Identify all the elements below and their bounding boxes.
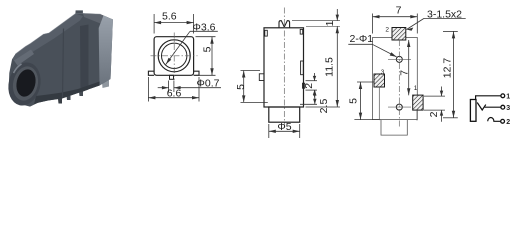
photo: bottom dark band [34,82,100,105]
svg-text:1: 1 [414,85,418,92]
footprint: pad1 pin line down [416,110,418,120]
photo: pin 3 [79,87,84,96]
side view: dim 1 extension lines top right [292,20,340,22]
front view: dim 6.6 extension lines [147,77,149,102]
svg-text:2: 2 [428,111,440,117]
side view: top left notch [265,30,268,36]
side view: dim 1 arrows [336,9,338,21]
svg-text:Φ0.7: Φ0.7 [197,78,220,90]
schematic: wire to terminal 3 [485,106,501,108]
photo: barrel opening [14,67,38,98]
front view: dim phi0.7 extension lines [168,81,170,93]
svg-text:2: 2 [303,83,315,89]
footprint: body outline [373,38,418,120]
front view: dim 5 right extension lines [196,36,216,38]
footprint: dim 12.7 extension lines [443,30,458,32]
footprint: label 2-phi1 leader [372,44,396,57]
footprint: hole 1 circle [396,56,402,62]
svg-text:3-1.5x2: 3-1.5x2 [427,8,462,20]
svg-text:5.6: 5.6 [162,10,177,22]
svg-text:3: 3 [506,105,510,112]
svg-text:2.5: 2.5 [318,99,330,114]
svg-text:3: 3 [381,69,385,76]
svg-text:2: 2 [506,119,510,126]
front view: dim phi3.6 underline [190,30,218,32]
schematic: terminal 3 circle [501,105,505,109]
svg-text:6.6: 6.6 [167,87,182,99]
footprint: vertical centerline [398,40,400,128]
front view: outer circle [158,40,190,72]
footprint: hole 2 circle [396,104,402,110]
front view: left mounting tab [148,71,154,75]
svg-text:11.5: 11.5 [324,57,336,77]
svg-text:Φ5: Φ5 [277,121,291,133]
photo: barrel ring [10,64,42,103]
front view: vertical centerline [173,33,175,81]
side view: dim 2 arrows outside [314,73,316,81]
front view: bottom pin [170,75,174,79]
svg-text:1: 1 [324,20,336,26]
svg-text:7: 7 [396,5,402,17]
photo: top edge highlight [16,13,101,54]
side view: dim 2.5 line [314,90,316,104]
footprint: pad3 pin extension line down [378,87,380,120]
footprint: dim 2 right pad extension lines [424,95,445,97]
photo: body silhouette [9,10,113,106]
footprint: hole2 horizontal centerline [388,106,411,108]
photo: body seam line [63,29,64,98]
side view: barrel bottom [269,107,300,122]
photo: barrel outer [4,59,45,109]
footprint: dim 7 top line with arrows [373,16,418,18]
photo: top face [83,13,113,24]
svg-text:2: 2 [385,27,389,34]
side view: dim phi5 line with arrows [269,130,300,132]
footprint: dim 7 vertical line [408,40,410,95]
footprint: pad 3 hatched [374,74,385,87]
side view: body rectangle [264,28,304,107]
front view: right mounting tab [194,71,199,75]
footprint: dim 12.7 line with arrows [453,31,455,117]
side view: dim phi5 extension lines [268,124,270,138]
side view: dim 5 left extension lines [241,70,261,72]
photo: top face diagonal band [12,14,83,63]
schematic: tip contact check [477,103,486,111]
side view: dim 11.5 line [336,26,338,107]
svg-text:5: 5 [235,84,247,90]
footprint: dim 2 arrows outside [441,87,443,97]
side view: dim 11.5 bottom extension line [306,106,341,108]
side view: dim 5 line with arrows [243,71,245,103]
schematic: wire to terminal 1 [476,96,501,100]
footprint: hole1 horizontal centerline [388,58,411,60]
photo: pin 1 [58,94,63,103]
side view: top right notch [300,29,303,34]
side view: right lug [303,83,305,88]
svg-text:1: 1 [506,93,510,100]
front view: body square [154,37,194,76]
schematic: terminal 2 circle [501,119,505,123]
svg-text:7: 7 [399,70,411,76]
photo: barrel rim highlight [14,64,22,73]
svg-text:Φ3.6: Φ3.6 [193,21,216,33]
svg-text:12.7: 12.7 [442,58,454,79]
front view: dim 5.6 line with arrows [154,22,194,24]
front view: inner circle [162,43,187,68]
front view: dim phi3.6 leader diagonal [166,31,190,64]
photo: barrel block top wedge [14,50,34,66]
front view: horizontal centerline [151,55,198,57]
photo: right end face [99,16,113,86]
footprint: label 2-phi1 underline [348,43,372,45]
footprint: label 3-1.5x2 leader [407,18,425,29]
side view: dim 2 extension lines [306,80,318,82]
svg-text:5: 5 [202,46,214,52]
footprint: pad 2 hatched [392,28,406,41]
footprint: dim 7 top extension lines [372,14,374,34]
photo: pin 4 [102,76,110,89]
side view: vertical centerline [283,8,285,128]
side view: left lug [259,74,264,81]
photo: pin 2 [66,91,71,100]
footprint: pad 1 hatched [413,95,423,110]
footprint: dim 5 left line with arrows [360,82,362,120]
schematic: switch contact hump [488,118,501,122]
schematic: terminal 1 circle [501,94,505,98]
svg-text:2-Φ1: 2-Φ1 [350,33,374,45]
front view: dim phi0.7 arrows and leader [158,87,169,89]
front view: dim 5 line with arrows [211,37,213,76]
footprint: dim 5 left extension lines [357,81,374,83]
svg-text:5: 5 [348,98,360,104]
side view: inner rect detail right [301,61,304,75]
schematic: plug body rectangle [470,100,476,122]
footprint: barrel outline below [381,120,407,136]
front view: dim 6.6 line with arrows [148,97,199,99]
side view: V spring contact on top [279,21,290,28]
photo: step shadow band [80,25,89,93]
front view: dim 5.6 extension lines [153,14,155,34]
